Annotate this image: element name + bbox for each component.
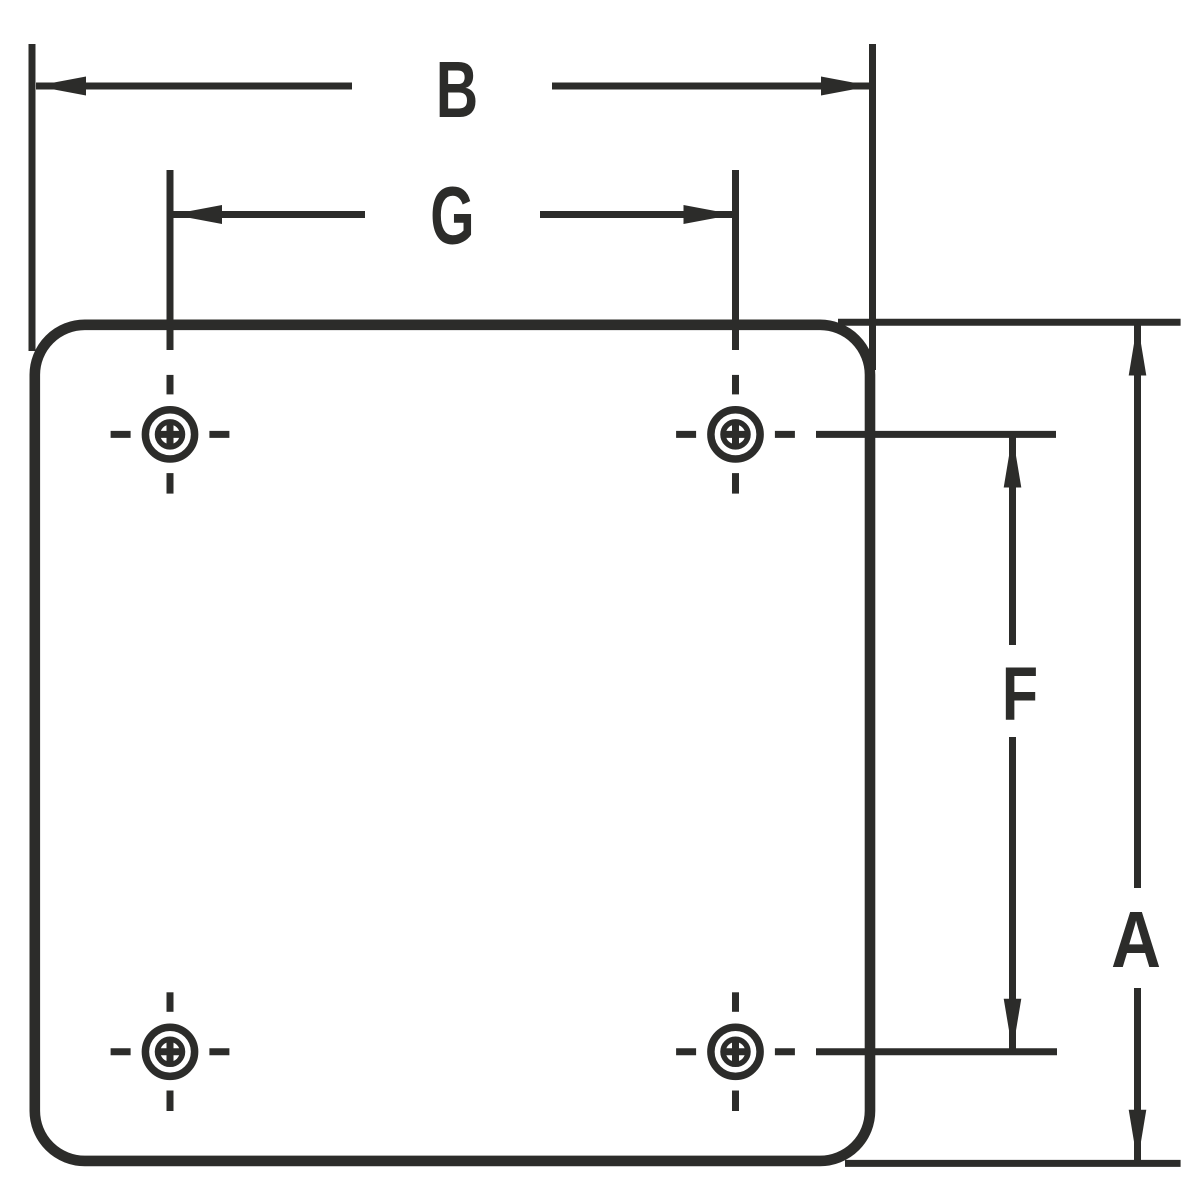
svg-text:G: G bbox=[430, 169, 474, 261]
svg-text:A: A bbox=[1111, 894, 1161, 984]
svg-text:B: B bbox=[436, 44, 478, 134]
svg-text:F: F bbox=[1002, 651, 1038, 736]
